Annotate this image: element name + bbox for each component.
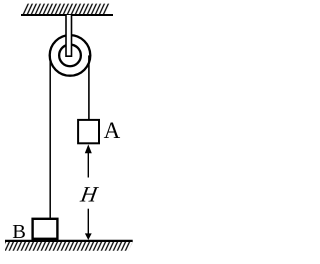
pulley outer wheel	[50, 35, 91, 76]
block A	[78, 120, 99, 143]
arrow down to ground	[85, 209, 92, 240]
svg-text:B: B	[12, 221, 26, 243]
svg-text:A: A	[104, 118, 121, 143]
left rope	[49, 55, 51, 218]
arrow up to block A	[85, 144, 92, 177]
ground line	[5, 240, 133, 242]
ceiling line	[21, 14, 113, 16]
ceiling hatch	[21, 4, 111, 15]
pulley inner hub	[59, 45, 81, 67]
ground hatch	[5, 242, 133, 251]
right rope	[88, 55, 90, 120]
pulley support bracket	[66, 15, 72, 56]
block B	[33, 219, 58, 239]
